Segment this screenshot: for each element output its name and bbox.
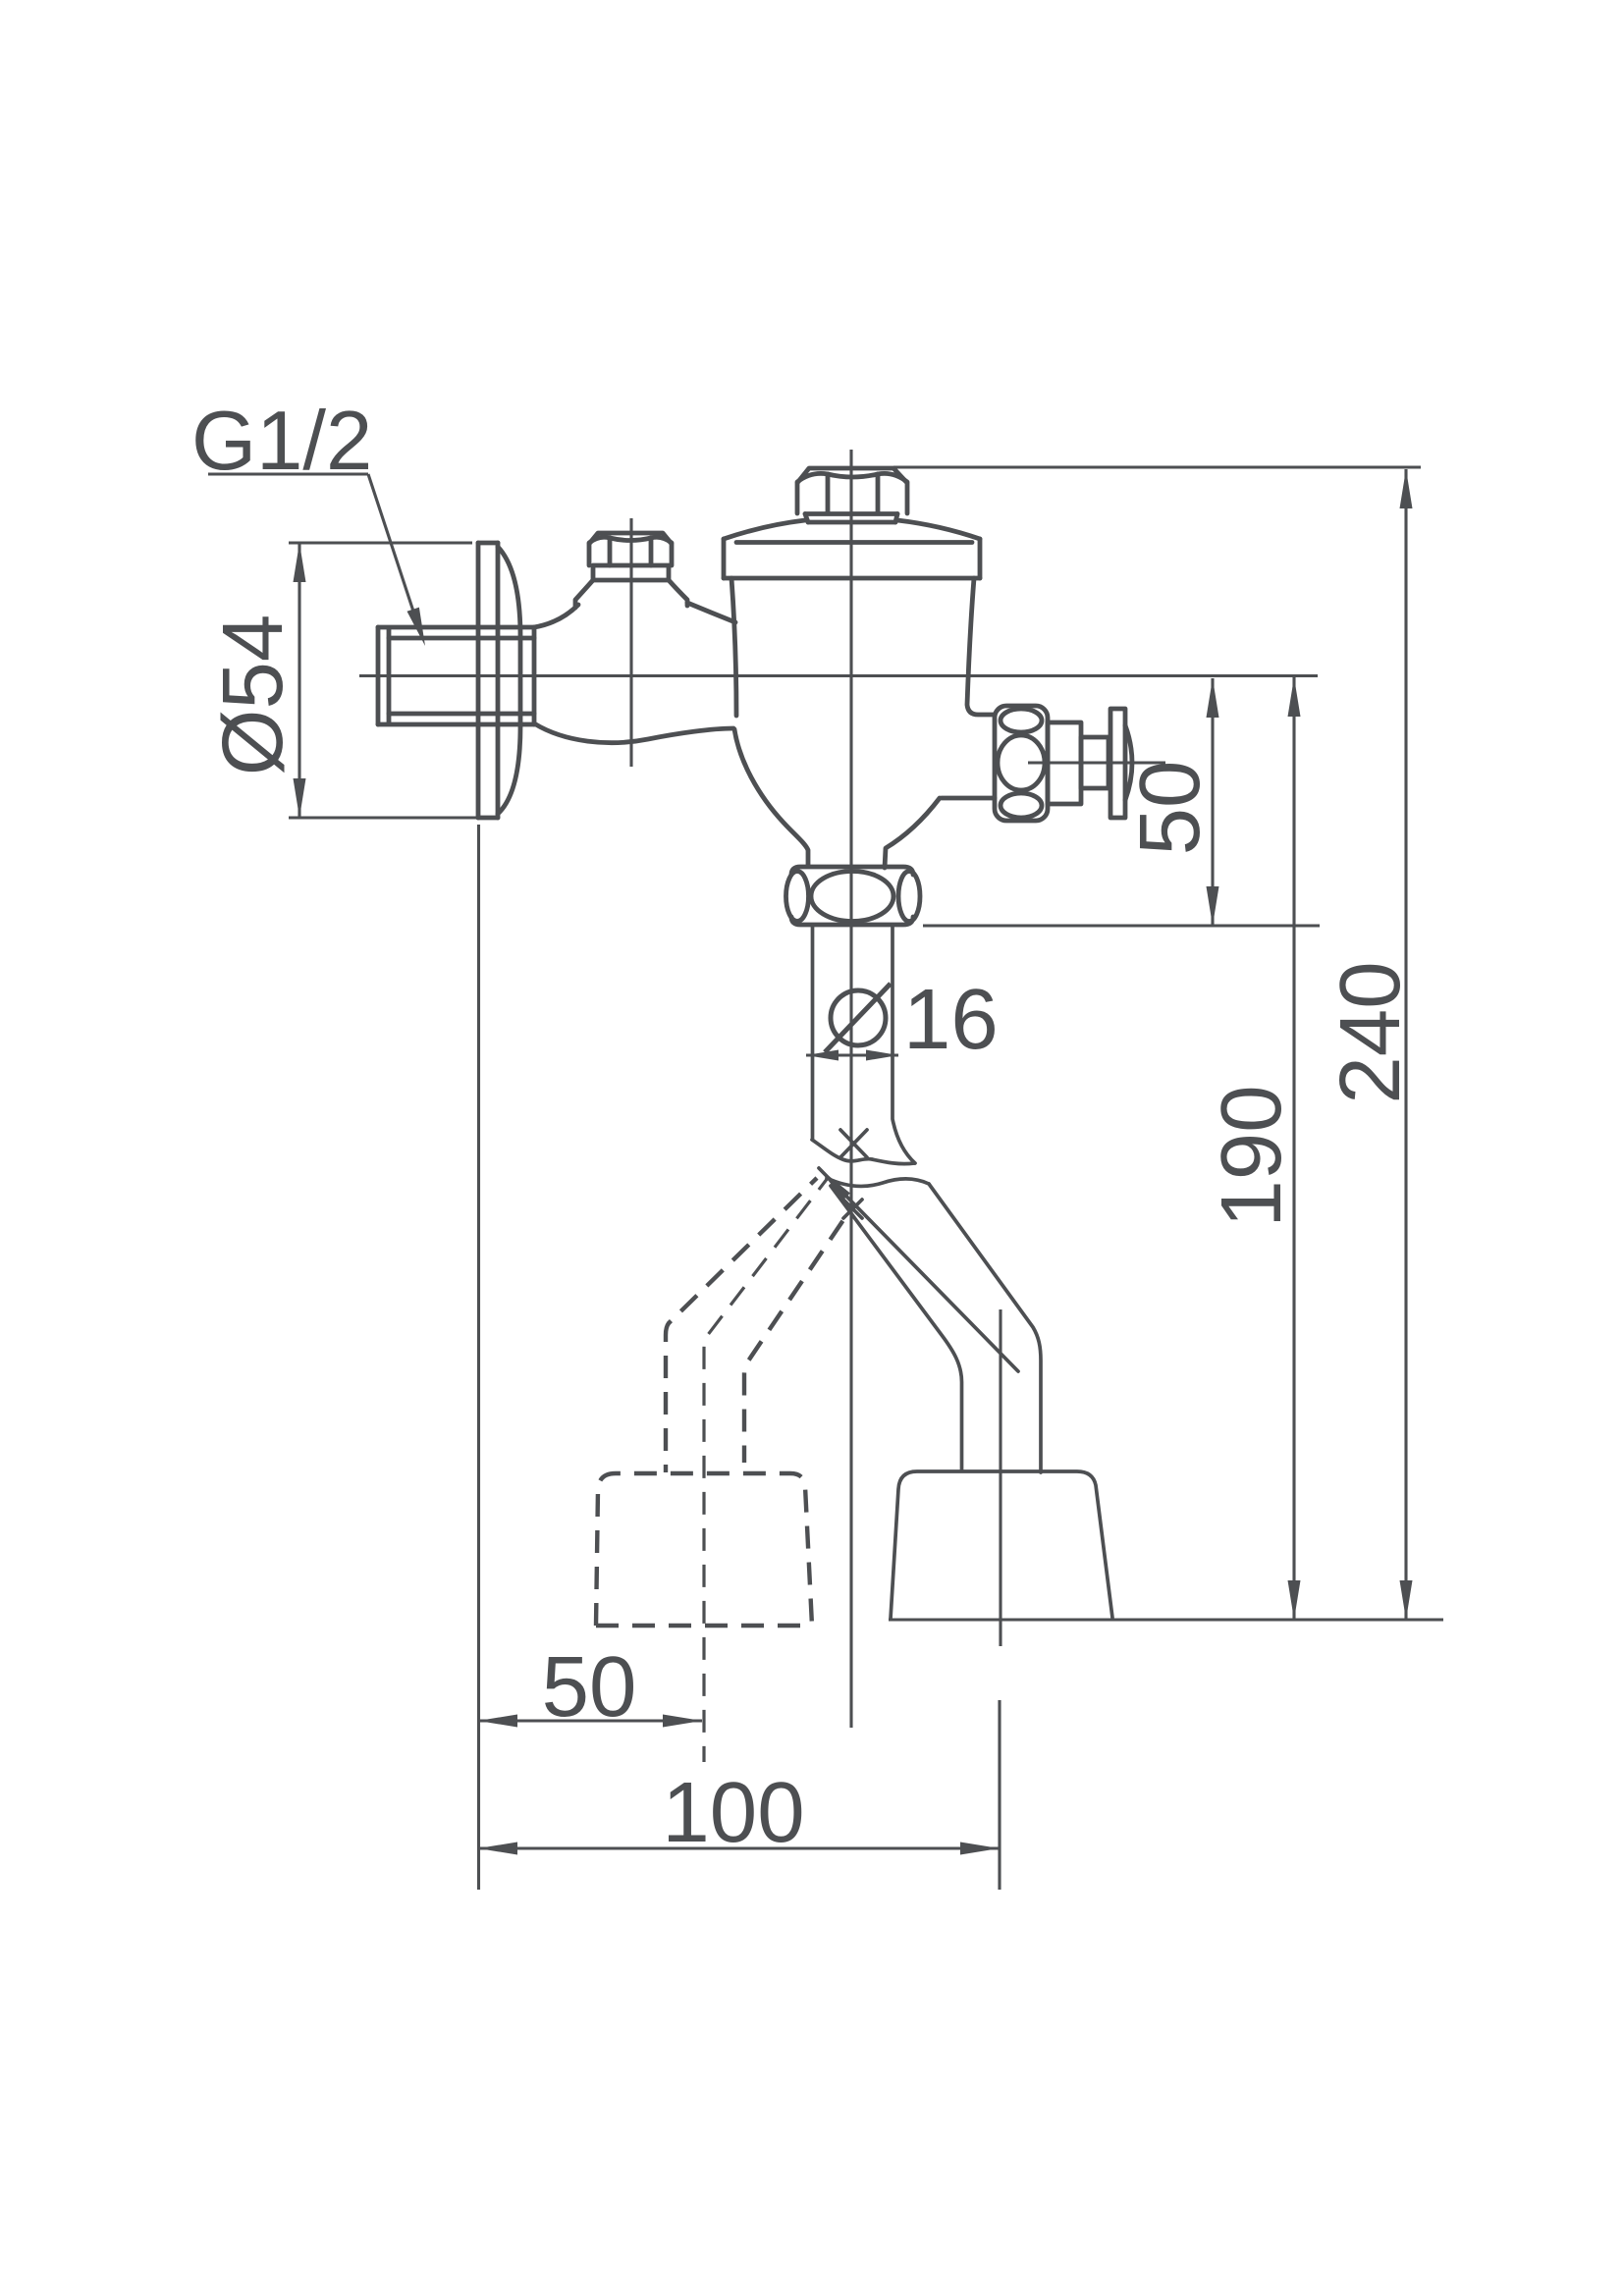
svg-text:Ø54: Ø54 — [205, 614, 300, 775]
svg-text:190: 190 — [1204, 1085, 1299, 1227]
svg-text:50: 50 — [1122, 761, 1217, 856]
svg-text:G1/2: G1/2 — [191, 395, 372, 488]
svg-text:16: 16 — [903, 972, 999, 1067]
svg-text:100: 100 — [662, 1765, 804, 1860]
svg-text:50: 50 — [542, 1639, 637, 1735]
svg-text:240: 240 — [1323, 961, 1418, 1103]
